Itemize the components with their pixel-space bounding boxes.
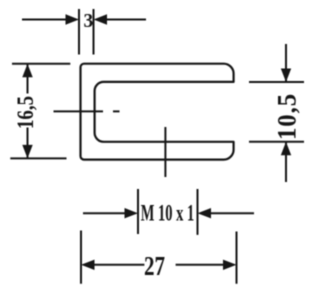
svg-text:M 10 x 1: M 10 x 1 — [141, 201, 195, 226]
svg-text:3: 3 — [84, 10, 94, 33]
svg-text:27: 27 — [144, 252, 165, 282]
svg-text:16,5: 16,5 — [12, 96, 38, 129]
svg-text:10,5: 10,5 — [273, 93, 302, 140]
